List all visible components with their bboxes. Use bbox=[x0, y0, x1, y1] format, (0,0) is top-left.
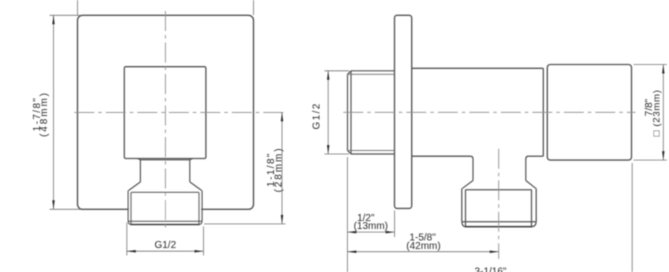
dim G1/2 front extension lines bbox=[127, 223, 204, 256]
escutcheon plate side bbox=[395, 15, 412, 208]
escutcheon plate front bbox=[78, 15, 254, 209]
centerline horizontal front bbox=[74, 111, 286, 113]
svg-text:G1/2: G1/2 bbox=[312, 102, 323, 129]
hex nut front bottom edge bbox=[131, 223, 200, 225]
hex nut front bbox=[128, 191, 202, 225]
outlet hex nut side bbox=[462, 189, 536, 227]
threaded inlet side bbox=[348, 71, 395, 154]
svg-text:3-1/16": 3-1/16" bbox=[475, 267, 507, 272]
nut front mask over plate edge bbox=[129, 191, 201, 223]
dim 1-7/8in 48mm extension lines bbox=[50, 0, 254, 209]
dim 7/8in 23mm extension lines bbox=[634, 65, 667, 161]
nut shoulder front bbox=[128, 182, 201, 191]
svg-text:G1/2: G1/2 bbox=[154, 240, 176, 251]
dim 1/2in 13mm extension lines bbox=[347, 157, 394, 272]
dim 1/2in 13mm line bbox=[347, 231, 394, 233]
dim 1-5/8in 42mm line bbox=[347, 251, 498, 253]
outlet nut bottom edge bbox=[465, 226, 532, 228]
centerline outlet vertical bbox=[498, 149, 500, 259]
valve body front square bbox=[124, 67, 206, 159]
svg-text:□ (23mm): □ (23mm) bbox=[651, 89, 662, 136]
dim G1/2 side line bbox=[327, 71, 329, 154]
svg-text:(48mm): (48mm) bbox=[39, 91, 50, 137]
dim 3-1/16in extension line bbox=[631, 163, 633, 272]
dim 7/8in 23mm line bbox=[662, 65, 664, 161]
centerline vertical front bbox=[164, 11, 166, 230]
neck front bbox=[138, 159, 193, 182]
centerline horizontal side bbox=[343, 111, 635, 113]
square handle knob side bbox=[547, 65, 631, 161]
svg-text:(42mm): (42mm) bbox=[406, 241, 440, 252]
dim 1-7/8in 48mm line bbox=[53, 15, 55, 209]
valve body side bbox=[412, 68, 544, 159]
dim 1-1/8in 28mm extension line bbox=[204, 223, 286, 225]
dim G1/2 front line bbox=[127, 250, 204, 252]
dim G1/2 side extension lines bbox=[325, 71, 350, 154]
outlet neck side bbox=[462, 159, 536, 189]
dim 1-1/8in 28mm line bbox=[281, 112, 283, 223]
svg-text:(13mm): (13mm) bbox=[354, 221, 388, 232]
svg-text:(28mm): (28mm) bbox=[273, 147, 284, 193]
thread minor lines bbox=[349, 74, 395, 150]
